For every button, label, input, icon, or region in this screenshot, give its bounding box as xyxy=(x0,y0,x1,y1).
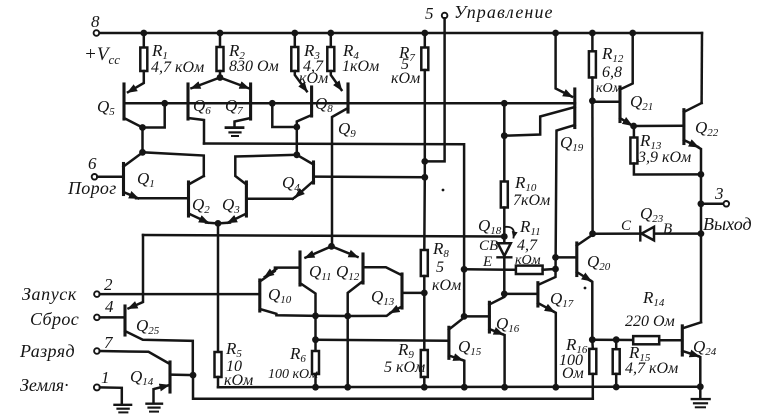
transistor Q13 xyxy=(400,274,403,308)
wire R2 to Q6 xyxy=(192,78,221,89)
wire Q20 base xyxy=(556,256,577,259)
svg-text:5: 5 xyxy=(436,259,444,276)
wire Vcc top rail xyxy=(99,32,702,35)
svg-text:Ом: Ом xyxy=(562,365,584,382)
svg-text:Q10: Q10 xyxy=(268,285,292,306)
wire node Q5 emitter down xyxy=(141,128,144,153)
ground under Q14 xyxy=(147,403,163,405)
ground under Q7 xyxy=(226,126,243,129)
wire Q19 base node vertical (R10 chain top) xyxy=(503,103,506,181)
wire Q5 base to emitter tie xyxy=(143,103,165,127)
wire base rail (Q5..Q19 bases) xyxy=(124,102,575,105)
transistor Q2 xyxy=(187,182,190,216)
svg-text:Запуск: Запуск xyxy=(22,284,77,304)
transistor Q8 xyxy=(310,87,313,116)
transistor Q21 xyxy=(618,87,621,122)
svg-text:Q15: Q15 xyxy=(458,337,482,358)
svg-text:Q4: Q4 xyxy=(282,173,300,194)
wire Q19 to Q20 base chain x5555 xyxy=(539,125,575,285)
transistor Q7 xyxy=(249,84,252,119)
svg-text:Выход: Выход xyxy=(703,214,752,234)
wire R2 to Q7 xyxy=(220,78,249,89)
resistor R12 xyxy=(591,33,594,51)
svg-text:7: 7 xyxy=(104,333,114,352)
wire R6 top segment xyxy=(316,315,348,318)
resistor R1 xyxy=(143,33,146,48)
transistor Q22 xyxy=(682,110,685,144)
svg-text:R5: R5 xyxy=(225,339,242,360)
svg-text:Q22: Q22 xyxy=(695,118,719,139)
wire Q24 base line xyxy=(592,338,633,341)
svg-text:R6: R6 xyxy=(289,344,306,365)
transistor Q3 xyxy=(245,182,248,216)
svg-text:Q23: Q23 xyxy=(640,204,664,225)
svg-text:3,9 кОм: 3,9 кОм xyxy=(637,149,691,166)
transistor Q19 xyxy=(556,33,572,97)
svg-text:СВ: СВ xyxy=(479,238,498,254)
svg-text:кОм: кОм xyxy=(515,253,541,268)
svg-text:Управление: Управление xyxy=(454,2,554,22)
svg-text:3: 3 xyxy=(714,184,724,203)
svg-text:Q21: Q21 xyxy=(630,92,653,113)
resistor R16 xyxy=(591,340,594,349)
svg-text:2: 2 xyxy=(104,275,113,294)
wire x143 vertical to Q25 xyxy=(129,235,144,308)
pin 2 terminal and wire xyxy=(94,291,100,297)
resistor R14 xyxy=(633,336,659,344)
pin 1 terminal and wire xyxy=(94,384,100,390)
transistor Q25 xyxy=(123,306,126,335)
wire Q8 emitter node down xyxy=(296,127,299,155)
svg-text:R8: R8 xyxy=(432,239,449,260)
svg-text:Q9: Q9 xyxy=(338,119,356,140)
svg-text:Q6: Q6 xyxy=(193,96,211,117)
transistor Q20 xyxy=(575,243,578,276)
wire comparator bias line y235 xyxy=(143,235,504,237)
svg-text:5: 5 xyxy=(425,4,434,23)
svg-text:Земля·: Земля· xyxy=(20,375,69,395)
svg-text:4,7 кОм: 4,7 кОм xyxy=(625,360,678,377)
svg-text:7кОм: 7кОм xyxy=(513,192,550,209)
svg-text:6,8: 6,8 xyxy=(602,64,622,81)
svg-text:4,7 кОм: 4,7 кОм xyxy=(151,59,204,76)
svg-text:кОм: кОм xyxy=(391,70,420,87)
svg-text:E: E xyxy=(482,254,492,270)
transistor Q5 xyxy=(122,84,125,119)
transistor Q15 xyxy=(447,327,450,358)
transistor Q17 xyxy=(536,283,539,306)
wire R12 bottom to Q23 node xyxy=(591,101,594,234)
wire Q21 emitter to Q22 base xyxy=(634,125,684,128)
transistor Q6 xyxy=(186,84,189,119)
svg-text:R14: R14 xyxy=(642,288,665,309)
transistor Q18 (diode-connected) xyxy=(503,237,506,244)
pin 4 terminal and wire xyxy=(94,315,100,321)
svg-text:Q14: Q14 xyxy=(130,367,154,388)
transistor Q14 xyxy=(168,362,171,392)
pin 5 terminal and wire xyxy=(442,13,448,19)
svg-text:кОм: кОм xyxy=(299,70,328,87)
resistor R8 xyxy=(423,177,426,250)
resistor R9 xyxy=(423,293,426,350)
svg-text:Q20: Q20 xyxy=(587,252,611,273)
transistor Q1 xyxy=(122,164,125,195)
svg-text:кОм: кОм xyxy=(224,372,253,389)
svg-text:Q16: Q16 xyxy=(496,314,520,335)
svg-text:220 Ом: 220 Ом xyxy=(625,313,675,330)
resistor R2 xyxy=(219,33,222,47)
resistor R4 xyxy=(330,33,333,47)
svg-text:Разряд: Разряд xyxy=(19,341,75,361)
transistor Q16 xyxy=(488,302,491,332)
wire Q21 base xyxy=(592,101,620,104)
transistor Q4 xyxy=(312,162,315,183)
transistor Q12 xyxy=(361,254,364,283)
ground at pin 1 xyxy=(115,404,132,406)
wire top-right corner down to Q22 collector xyxy=(700,33,703,103)
svg-text:5 кОм: 5 кОм xyxy=(384,359,425,376)
svg-text:Q1: Q1 xyxy=(137,169,155,190)
svg-text:Сброс: Сброс xyxy=(30,309,79,329)
resistor R11 xyxy=(516,266,543,274)
svg-text:Порог: Порог xyxy=(67,178,117,198)
svg-text:100 кОм: 100 кОм xyxy=(268,367,318,382)
svg-text:Q19: Q19 xyxy=(560,133,584,154)
pin 8 terminal xyxy=(94,30,100,36)
wire Q14 base node to lower rail xyxy=(193,375,593,399)
pin 7 terminal and wire xyxy=(94,348,100,354)
svg-text:Q11: Q11 xyxy=(309,262,331,283)
wire control node down to Q4 base node xyxy=(424,161,427,177)
svg-text:B: B xyxy=(663,221,672,237)
svg-text:830 Ом: 830 Ом xyxy=(229,58,279,75)
pin 3 terminal and wire xyxy=(701,203,724,206)
svg-text:C: C xyxy=(621,218,632,234)
transistor Q24 xyxy=(681,326,684,355)
svg-text:6: 6 xyxy=(88,154,97,173)
resistor R15 xyxy=(615,340,618,349)
svg-text:4: 4 xyxy=(105,297,114,316)
resistor R7 xyxy=(424,33,427,48)
svg-text:Q12: Q12 xyxy=(336,262,360,283)
resistor R5 xyxy=(215,352,222,377)
transistor Q9 xyxy=(346,84,349,112)
diode Q23 xyxy=(593,232,701,235)
resistor R10 xyxy=(501,182,508,208)
wire y143 line Q6 emitter to x464 xyxy=(204,144,464,317)
svg-text:4,7: 4,7 xyxy=(517,237,538,254)
svg-text:Q17: Q17 xyxy=(550,289,574,310)
svg-text:8: 8 xyxy=(91,12,100,31)
wire ground bus y387 xyxy=(218,385,701,388)
wire Q1/Q2 collector node to Q2 xyxy=(143,152,204,176)
svg-text:Q5: Q5 xyxy=(97,97,115,118)
svg-text:кОм: кОм xyxy=(432,277,461,294)
svg-text:Q8: Q8 xyxy=(315,94,333,115)
svg-text:R10: R10 xyxy=(514,173,537,194)
svg-text:Q13: Q13 xyxy=(371,287,395,308)
transistor Q10 xyxy=(258,280,261,311)
svg-text:1: 1 xyxy=(101,368,110,387)
wire R11 feed line xyxy=(464,268,516,271)
svg-text:R11: R11 xyxy=(519,217,541,238)
svg-text:Q7: Q7 xyxy=(225,96,243,117)
ground under Q24 xyxy=(699,387,702,398)
svg-text:R9: R9 xyxy=(397,340,414,361)
svg-text:+Vcc: +Vcc xyxy=(84,44,120,67)
svg-text:Q2: Q2 xyxy=(192,195,210,216)
wire Q2/Q3 emitters to R5 xyxy=(217,223,220,352)
transistor Q11 xyxy=(298,252,301,285)
svg-text:Q18: Q18 xyxy=(478,216,502,237)
svg-text:R12: R12 xyxy=(601,44,624,65)
Q18 curved pointer xyxy=(505,227,514,238)
resistor R3 xyxy=(294,33,297,47)
pin 6 terminal and wire xyxy=(92,174,98,180)
wire Q8 base tie xyxy=(272,103,297,127)
svg-text:1кОм: 1кОм xyxy=(342,58,379,75)
svg-text:Q25: Q25 xyxy=(136,316,160,337)
svg-text:Q24: Q24 xyxy=(693,337,717,358)
resistor R6 xyxy=(314,316,317,351)
svg-text:Q3: Q3 xyxy=(222,195,240,216)
svg-text:кОм: кОм xyxy=(596,81,622,96)
resistor R13 xyxy=(633,126,636,138)
